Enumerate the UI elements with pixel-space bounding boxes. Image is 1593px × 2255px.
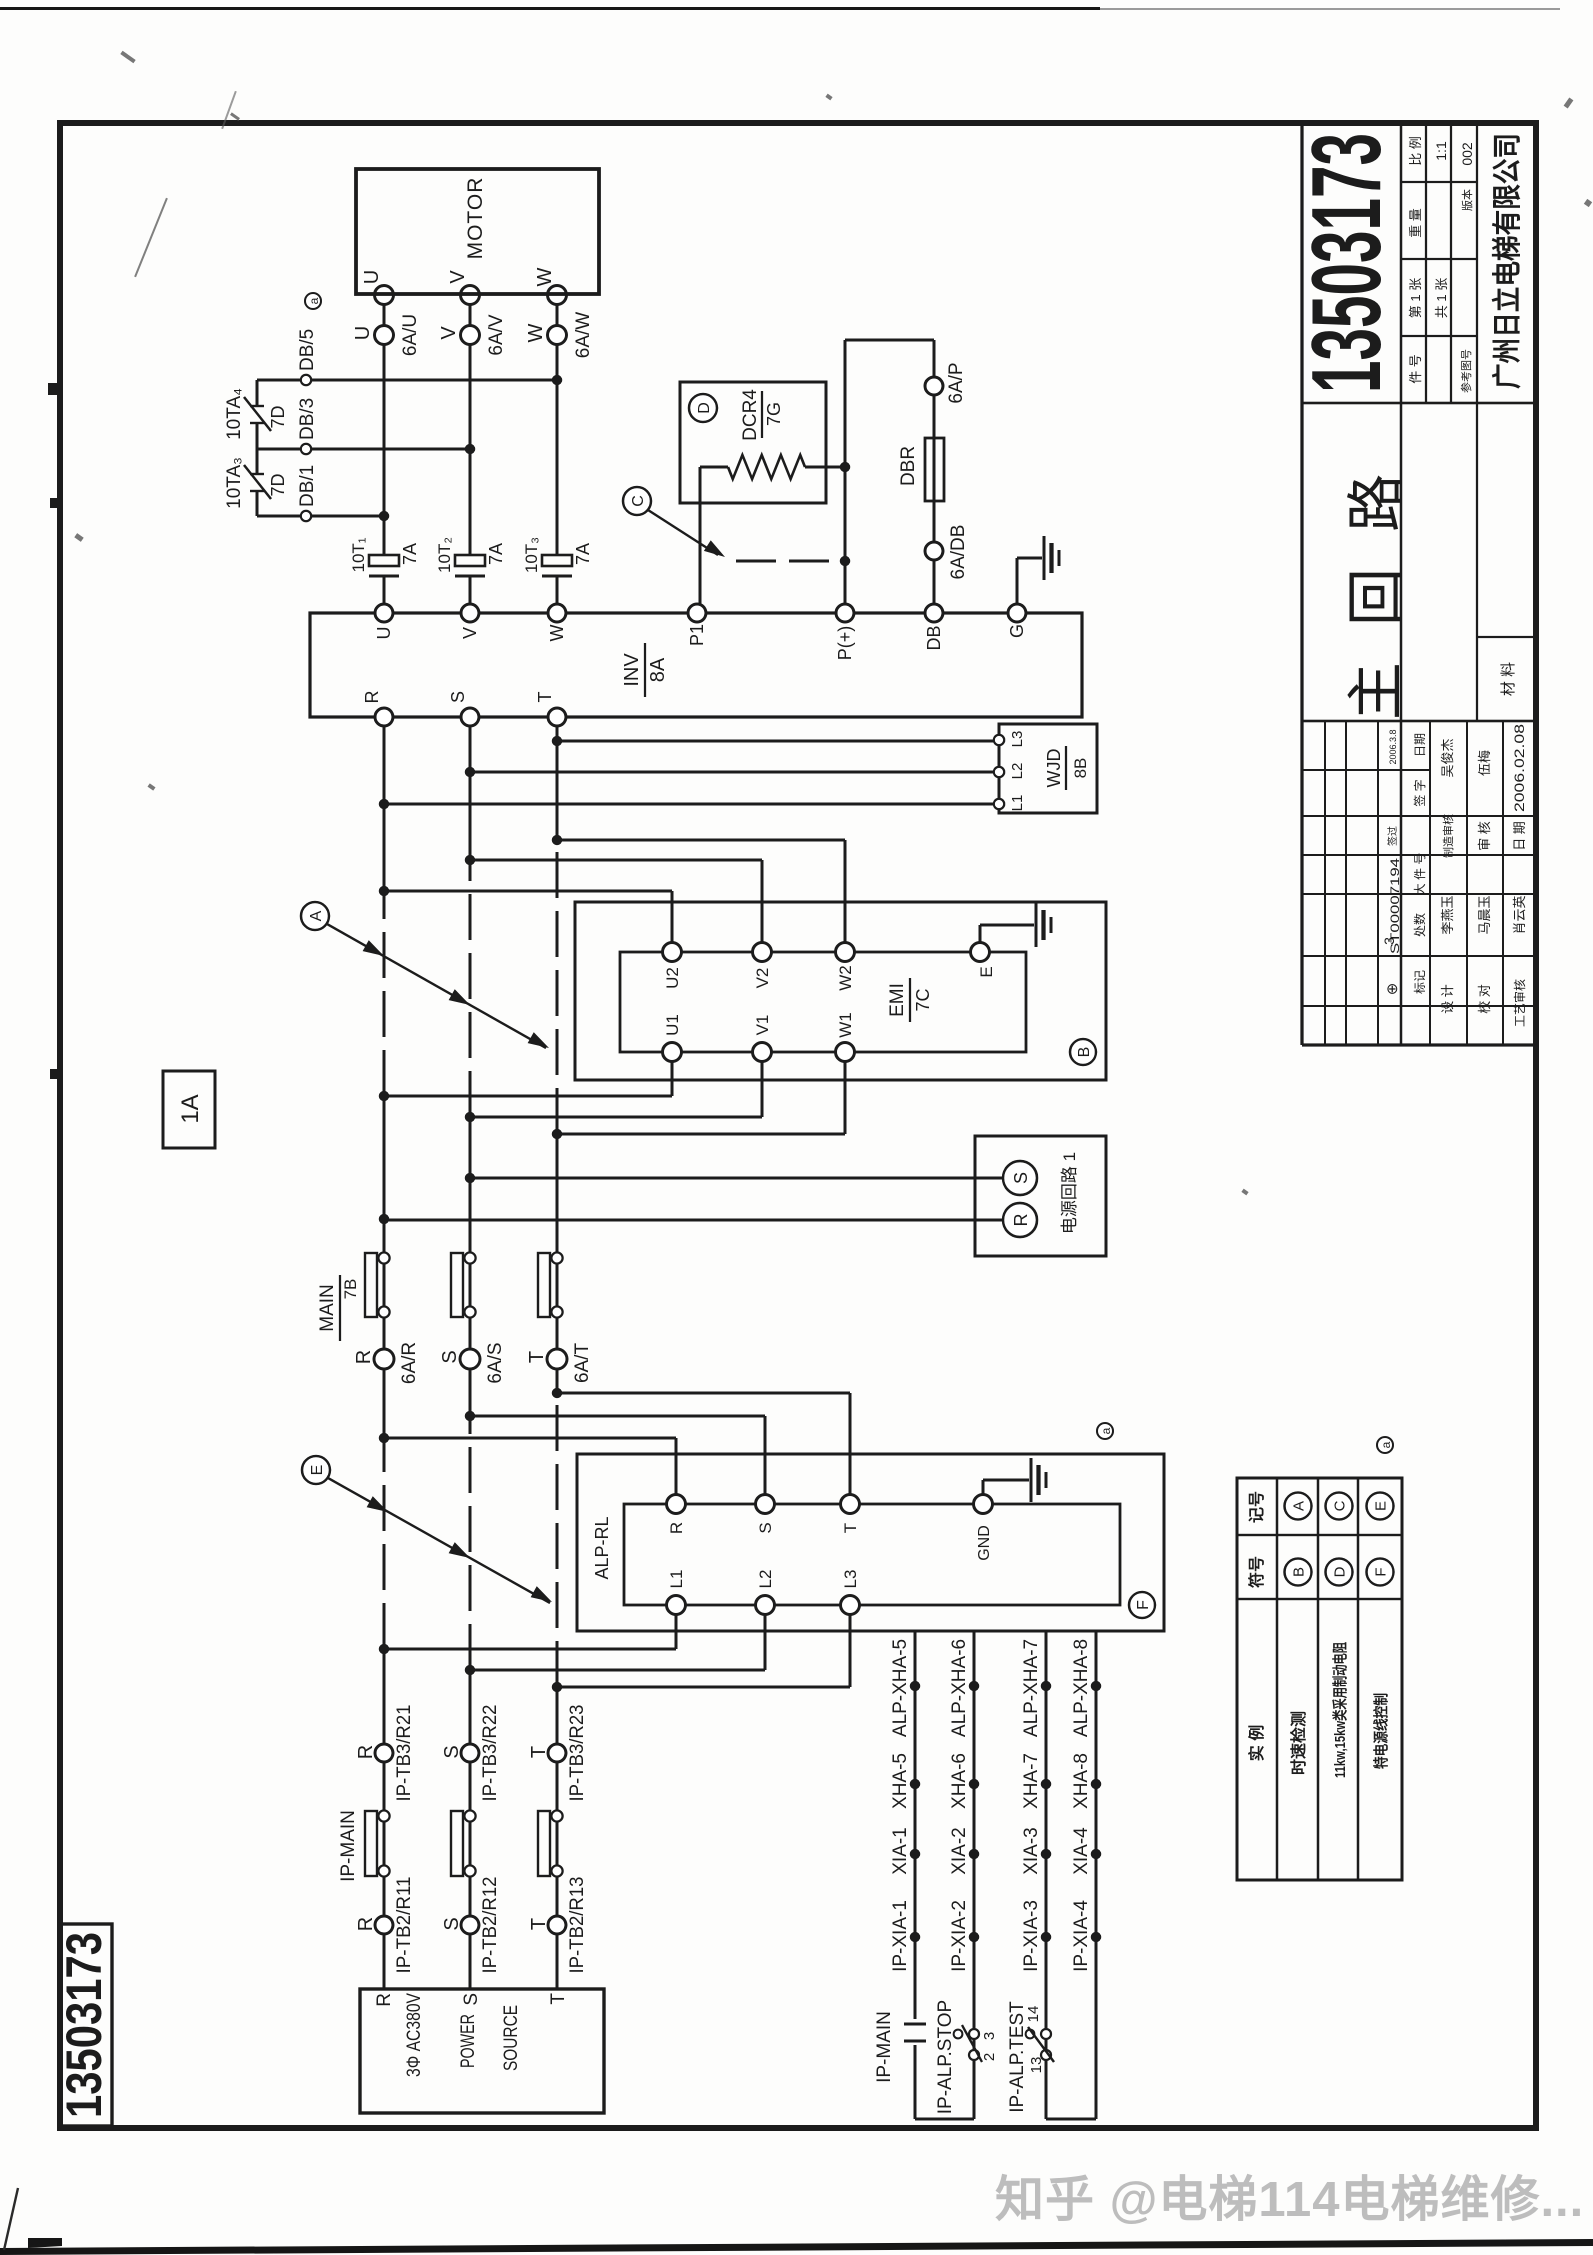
node WJD tap S <box>465 767 475 777</box>
svg-text:A: A <box>308 910 325 921</box>
pin L2 <box>994 767 1004 777</box>
pin S <box>1003 1161 1037 1195</box>
contactor MAIN/7B contact R <box>365 1253 377 1317</box>
pin L2 of ALP-RL <box>756 1596 775 1615</box>
contactor IP-MAIN contact T <box>538 1811 550 1876</box>
svg-text:R: R <box>353 1350 375 1364</box>
ground (ALP-RL GND) <box>1030 1458 1033 1502</box>
node IP-XIA-2 <box>969 1932 979 1942</box>
switch IP-ALP.STOP <box>969 2050 979 2060</box>
svg-text:POWER: POWER <box>458 2014 479 2068</box>
wire DB rail <box>933 340 936 604</box>
svg-text:T: T <box>548 1993 569 2005</box>
pin R <box>1003 1203 1037 1237</box>
wire control line XIA-4 <box>1095 1631 1098 2119</box>
node ALP-RL L-return junction S <box>465 1665 475 1675</box>
svg-text:S: S <box>441 1745 463 1758</box>
node WJD tap R <box>379 799 389 809</box>
svg-text:T: T <box>535 692 555 703</box>
svg-text:ALP-XHA-7: ALP-XHA-7 <box>1021 1639 1042 1737</box>
unit 电源回路1 box <box>975 1136 1106 1256</box>
wire E to earth <box>979 925 982 943</box>
svg-text:特电源线控制: 特电源线控制 <box>1372 1693 1390 1769</box>
pin R of ALP-RL <box>667 1495 686 1514</box>
wire S dashed bypass (EMI) <box>469 860 472 1117</box>
terminal 6A/V <box>461 326 480 345</box>
svg-text:8B: 8B <box>1071 758 1090 779</box>
terminal 6A/T <box>547 1349 567 1369</box>
terminal IP-TB3/R22 <box>461 1744 479 1762</box>
svg-text:6A/W: 6A/W <box>573 312 594 359</box>
wire S tap to 电源回路 <box>470 1177 1003 1180</box>
svg-text:W: W <box>547 625 567 642</box>
contactor MAIN/7B contact T <box>538 1253 550 1317</box>
svg-text:L1: L1 <box>667 1570 686 1589</box>
svg-text:ALP-XHA-8: ALP-XHA-8 <box>1071 1639 1092 1737</box>
svg-text:6A/DB: 6A/DB <box>948 525 969 580</box>
contactor IP-MAIN contact R <box>365 1811 377 1876</box>
svg-text:共 1 张: 共 1 张 <box>1434 278 1449 318</box>
svg-text:XIA-4: XIA-4 <box>1071 1827 1092 1875</box>
watermark 知乎 <box>995 2160 1593 2220</box>
node ALP-XHA-6 <box>969 1681 979 1691</box>
pin W of INV <box>548 604 566 622</box>
node XHA-5 <box>910 1779 920 1789</box>
pin U2 <box>663 943 682 962</box>
wire GND to earth <box>982 1480 985 1495</box>
svg-text:10T₁: 10T₁ <box>349 537 368 572</box>
ground (EMI E) <box>1035 903 1038 947</box>
svg-text:IP-TB2/R13: IP-TB2/R13 <box>567 1877 588 1974</box>
svg-text:材 料: 材 料 <box>1500 662 1517 696</box>
pin V of INV <box>461 604 479 622</box>
wire T phase: power source to ALP junction <box>556 1687 559 1989</box>
wire R solid to EMI junction <box>383 1096 386 1438</box>
node XIA-2 <box>969 1849 979 1859</box>
label circle D <box>689 394 717 422</box>
svg-text:D: D <box>1331 1566 1348 1577</box>
svg-text:IP-TB3/R23: IP-TB3/R23 <box>567 1705 588 1802</box>
svg-text:C: C <box>630 495 647 507</box>
svg-text:⊕: ⊕ <box>1384 983 1401 996</box>
terminal IP-TB3/R21 <box>375 1744 393 1762</box>
svg-text:IP-XIA-4: IP-XIA-4 <box>1071 1900 1092 1972</box>
node ALP-RL L-return junction T <box>552 1682 562 1692</box>
wire U2 to R <box>671 891 674 943</box>
svg-text:R: R <box>362 691 382 704</box>
wire S phase: power source to ALP junction <box>469 1670 472 1989</box>
svg-text:S: S <box>441 1917 463 1930</box>
svg-text:ALP-XHA-6: ALP-XHA-6 <box>949 1639 970 1737</box>
svg-text:DB/1: DB/1 <box>297 465 318 507</box>
svg-text:L2: L2 <box>1009 763 1026 780</box>
node EMI input junction S <box>465 855 475 865</box>
svg-text:2006.3.8: 2006.3.8 <box>1388 729 1398 764</box>
svg-text:符号: 符号 <box>1247 1556 1266 1588</box>
terminal IP-TB3/R23 <box>548 1744 566 1762</box>
node 电源回路 S tap <box>465 1173 475 1183</box>
svg-text:R: R <box>355 1917 377 1931</box>
pin V2 <box>753 943 772 962</box>
pin E <box>971 943 990 962</box>
label circle A with leader <box>301 902 329 930</box>
svg-text:广州日立电梯有限公司: 广州日立电梯有限公司 <box>1490 133 1524 389</box>
label circle C with leader <box>623 487 651 515</box>
svg-text:U: U <box>352 326 374 340</box>
contactor MAIN/7B contact S <box>451 1253 463 1317</box>
legend circle B <box>1285 1559 1312 1586</box>
node IP-XIA-1 <box>910 1932 920 1942</box>
svg-text:B: B <box>1076 1047 1093 1058</box>
svg-text:3Φ AC380V: 3Φ AC380V <box>404 1993 425 2077</box>
wire T to WJD L3 <box>557 740 994 743</box>
svg-text:W1: W1 <box>836 1012 855 1038</box>
node EMI input junction R <box>379 886 389 896</box>
node ALP-XHA-5 <box>910 1681 920 1691</box>
svg-text:L1: L1 <box>1009 795 1026 812</box>
wire R to WJD L1 <box>384 803 994 806</box>
terminal V at motor <box>461 286 480 305</box>
svg-text:XIA-1: XIA-1 <box>890 1827 911 1875</box>
svg-text:IP-XIA-3: IP-XIA-3 <box>1021 1900 1042 1972</box>
pin T of ALP-RL <box>841 1495 860 1514</box>
wire control line XIA-1 <box>914 2045 917 2119</box>
legend circle D <box>1326 1559 1353 1586</box>
svg-text:实 例: 实 例 <box>1247 1725 1266 1761</box>
svg-text:设 计: 设 计 <box>1440 984 1455 1014</box>
wire R solid to INV <box>383 717 386 891</box>
svg-text:V: V <box>438 326 460 340</box>
ground (G terminal) <box>1043 536 1046 580</box>
svg-text:李燕玉: 李燕玉 <box>1440 895 1455 934</box>
wire V2 to S <box>761 860 764 943</box>
wire P(+) rail <box>844 340 847 604</box>
svg-text:a: a <box>1099 1427 1113 1434</box>
pin V1 <box>753 1043 772 1062</box>
svg-text:E: E <box>1372 1501 1389 1511</box>
svg-text:a: a <box>307 297 321 304</box>
node EMI input junction T <box>552 835 562 845</box>
svg-text:E: E <box>309 1465 326 1476</box>
svg-text:6A/T: 6A/T <box>572 1343 593 1384</box>
svg-text:7B: 7B <box>341 1279 360 1300</box>
pin P1 of INV <box>688 604 706 622</box>
label circle F <box>1129 1592 1155 1618</box>
wire DB/5 tap (to W) <box>257 379 557 382</box>
svg-text:7G: 7G <box>764 402 784 426</box>
svg-text:W: W <box>534 267 556 286</box>
svg-text:SOURCE: SOURCE <box>501 2005 522 2071</box>
node EMI V1 tap <box>465 1112 475 1122</box>
terminal U at motor <box>375 286 394 305</box>
wire U phase INV to motor <box>383 576 386 604</box>
svg-text:工艺审核: 工艺审核 <box>1512 979 1527 1027</box>
svg-text:IP-MAIN: IP-MAIN <box>874 2011 895 2083</box>
svg-text:IP-TB3/R21: IP-TB3/R21 <box>394 1705 415 1802</box>
pin L3 of ALP-RL <box>841 1596 860 1615</box>
wire DCR4 top to P1 <box>700 466 728 469</box>
node IP-XIA-3 <box>1041 1932 1051 1942</box>
svg-text:MAIN: MAIN <box>317 1284 338 1332</box>
node dashed option junction <box>840 556 850 566</box>
svg-text:IP-TB3/R22: IP-TB3/R22 <box>480 1705 501 1802</box>
wire W phase INV to motor <box>556 576 559 604</box>
svg-text:R: R <box>374 1993 395 2007</box>
legend table <box>1237 1478 1402 1880</box>
svg-text:EMI: EMI <box>887 983 908 1017</box>
wire W1 to T <box>844 1061 847 1134</box>
svg-text:V1: V1 <box>753 1015 772 1036</box>
svg-text:3: 3 <box>981 2032 998 2040</box>
svg-text:比 例: 比 例 <box>1408 136 1423 166</box>
svg-text:重 量: 重 量 <box>1408 208 1423 238</box>
contact IP-MAIN aux <box>904 2040 926 2043</box>
svg-text:时速检测: 时速检测 <box>1289 1711 1308 1775</box>
scan scratches top-left <box>134 198 168 278</box>
svg-text:DB/3: DB/3 <box>297 398 318 440</box>
pin L1 of ALP-RL <box>667 1596 686 1615</box>
scan nub marks on frame edge <box>48 383 60 395</box>
svg-text:日 期: 日 期 <box>1512 821 1527 851</box>
switch 10TA4 <box>250 422 264 424</box>
svg-text:IP-ALP.STOP: IP-ALP.STOP <box>935 2000 956 2114</box>
pin L3 <box>994 735 1004 745</box>
svg-text:DBR: DBR <box>898 446 919 486</box>
unit ALP-RL outer box <box>577 1454 1164 1631</box>
switch IP-ALP.TEST <box>1041 2050 1051 2060</box>
legend circle A <box>1285 1493 1312 1520</box>
node ALP-RL input junction S <box>465 1411 475 1421</box>
capacitor 10T₃ (7A) <box>542 575 572 578</box>
terminal DB/5 <box>301 375 311 385</box>
node EMI W1 tap <box>552 1129 562 1139</box>
pin U1 <box>663 1043 682 1062</box>
terminal DB/1 <box>301 511 311 521</box>
wire ALP L1 return <box>675 1614 678 1649</box>
svg-text:D: D <box>696 402 713 414</box>
wire V phase INV to motor <box>469 576 472 604</box>
svg-text:伍梅: 伍梅 <box>1477 750 1492 776</box>
pin T of INV <box>548 708 566 726</box>
terminal 6A/U <box>375 326 394 345</box>
svg-text:审 核: 审 核 <box>1477 821 1492 851</box>
wire G to earth <box>1016 558 1019 604</box>
svg-text:DB/5: DB/5 <box>297 329 318 371</box>
node XHA-8 <box>1091 1779 1101 1789</box>
wire T dashed bypass (ALP-RL) <box>556 1393 559 1687</box>
wire S solid to INV <box>469 717 472 860</box>
svg-text:DCR4: DCR4 <box>740 389 761 441</box>
terminal 6A/R <box>374 1349 394 1369</box>
capacitor 10T₁ (7A) <box>369 575 399 578</box>
svg-text:U1: U1 <box>663 1014 682 1036</box>
node a (ALP-RL) <box>1097 1423 1113 1439</box>
svg-text:IP-XIA-1: IP-XIA-1 <box>890 1900 911 1972</box>
motor box <box>356 169 599 294</box>
svg-text:S: S <box>439 1350 461 1363</box>
filter EMI/7C outer box <box>575 902 1106 1080</box>
node ALP-RL input junction T <box>552 1388 562 1398</box>
legend circle C <box>1326 1493 1353 1520</box>
wire R dashed bypass (ALP-RL) <box>383 1438 386 1649</box>
wire control line XIA-2 <box>973 1631 976 2119</box>
svg-text:处数: 处数 <box>1412 913 1427 937</box>
wire T dashed bypass (EMI) <box>556 840 559 1134</box>
svg-text:WJD: WJD <box>1044 749 1064 788</box>
node a (near motor) <box>305 293 321 309</box>
node XIA-1 <box>910 1849 920 1859</box>
pin U of INV <box>375 604 393 622</box>
unit ALP-RL inner box <box>624 1504 1120 1605</box>
terminal 6A/P <box>925 377 943 395</box>
node XIA-3 <box>1041 1849 1051 1859</box>
svg-text:第 1 张: 第 1 张 <box>1408 278 1423 318</box>
svg-text:R: R <box>355 1745 377 1759</box>
power source box <box>360 1989 604 2113</box>
reference box 1A <box>163 1071 215 1148</box>
svg-text:参考图号: 参考图号 <box>1459 349 1473 393</box>
svg-text:吴俊杰: 吴俊杰 <box>1440 738 1455 777</box>
node 电源回路 R tap <box>379 1214 389 1224</box>
svg-text:U: U <box>374 627 394 640</box>
svg-text:XIA-2: XIA-2 <box>949 1827 970 1875</box>
svg-text:大 件 号: 大 件 号 <box>1413 853 1427 896</box>
svg-text:XHA-5: XHA-5 <box>890 1753 911 1809</box>
svg-text:GND: GND <box>976 1525 993 1561</box>
node DCR4/P(+) junction <box>840 462 850 472</box>
svg-text:签过: 签过 <box>1386 826 1399 846</box>
svg-text:P(+): P(+) <box>835 626 855 661</box>
wire S dashed bypass (ALP-RL) <box>469 1416 472 1670</box>
svg-text:10T₂: 10T₂ <box>435 537 454 573</box>
wire S solid to EMI junction <box>469 1117 472 1416</box>
terminal 6A/DB <box>925 542 943 560</box>
terminal DB/3 <box>301 444 311 454</box>
svg-text:XHA-6: XHA-6 <box>949 1753 970 1809</box>
pin R of INV <box>375 708 393 726</box>
pin DB of INV <box>925 604 943 622</box>
svg-text:S: S <box>1011 1172 1031 1184</box>
resistor DCR4 zigzag <box>728 455 805 479</box>
wire W2 to T <box>844 840 847 943</box>
node XHA-6 <box>969 1779 979 1789</box>
svg-text:13503173: 13503173 <box>1291 133 1401 393</box>
wire R phase: power source to ALP junction <box>383 1649 386 1989</box>
wire control line XIA-3 <box>1045 1631 1048 2119</box>
wire dashed option C <box>736 560 845 563</box>
svg-text:IP-ALP.TEST: IP-ALP.TEST <box>1007 2001 1028 2113</box>
svg-text:签 字: 签 字 <box>1412 779 1427 806</box>
wire S to WJD L2 <box>470 771 994 774</box>
svg-text:记号: 记号 <box>1248 1491 1266 1523</box>
svg-text:E: E <box>977 966 996 977</box>
node IP-XIA-4 <box>1091 1932 1101 1942</box>
pin L1 <box>994 799 1004 809</box>
signature table <box>1324 721 1326 1045</box>
reactor DCR4/7G box <box>680 382 826 503</box>
wire ALP L2 return <box>764 1614 767 1670</box>
svg-text:8A: 8A <box>647 657 669 682</box>
wire DB/3 tap (to V) <box>257 448 470 451</box>
capacitor 10T₂ (7A) <box>455 575 485 578</box>
wire ALP S input <box>470 1415 765 1418</box>
wire ALP L3 return <box>849 1614 852 1687</box>
pin W1 <box>836 1043 855 1062</box>
wire 10TA bracket <box>256 491 259 516</box>
legend circle E <box>1367 1493 1394 1520</box>
wire ALP R input <box>384 1437 676 1440</box>
node ALP-XHA-8 <box>1091 1681 1101 1691</box>
svg-text:XIA-3: XIA-3 <box>1021 1827 1042 1875</box>
svg-text:XHA-7: XHA-7 <box>1021 1753 1042 1809</box>
wire loop 3-4 <box>1046 2118 1096 2121</box>
svg-text:L3: L3 <box>841 1570 860 1589</box>
svg-text:A: A <box>1290 1501 1307 1511</box>
terminal W at motor <box>548 286 567 305</box>
svg-text:13: 13 <box>1028 2057 1045 2074</box>
svg-text:13503173: 13503173 <box>56 1932 112 2118</box>
svg-text:XHA-8: XHA-8 <box>1071 1753 1092 1809</box>
wire DCR4 bottom to P(+) <box>805 466 845 469</box>
svg-text:标记: 标记 <box>1413 970 1427 994</box>
pin GND <box>974 1495 993 1514</box>
svg-text:6A/P: 6A/P <box>946 362 967 403</box>
svg-text:a: a <box>1379 1441 1393 1448</box>
node DB/3 junction on V <box>465 444 475 454</box>
switch 10TA3 <box>250 490 264 492</box>
wire U1 to R <box>671 1061 674 1096</box>
svg-text:G: G <box>1007 624 1027 638</box>
svg-text:MOTOR: MOTOR <box>464 177 487 260</box>
svg-text:F: F <box>1372 1567 1389 1576</box>
svg-text:7A: 7A <box>573 543 593 565</box>
node ALP-RL input junction R <box>379 1433 389 1443</box>
svg-text:制造审核: 制造审核 <box>1441 814 1455 858</box>
node XHA-7 <box>1041 1779 1051 1789</box>
svg-text:002: 002 <box>1459 142 1475 166</box>
svg-text:电源回路 1: 电源回路 1 <box>1060 1152 1079 1234</box>
inverter INV/8A box <box>310 613 1082 717</box>
node XIA-4 <box>1091 1849 1101 1859</box>
wire P(+) to DB loop <box>845 339 934 342</box>
svg-text:V: V <box>447 270 469 284</box>
svg-text:T: T <box>528 1918 550 1930</box>
pin S of INV <box>461 708 479 726</box>
svg-text:10T₃: 10T₃ <box>522 537 541 573</box>
svg-text:T: T <box>528 1746 550 1758</box>
contactor IP-MAIN contact S <box>451 1811 463 1876</box>
svg-text:7A: 7A <box>400 543 420 565</box>
svg-text:U2: U2 <box>663 967 682 989</box>
svg-text:1A: 1A <box>177 1094 204 1123</box>
svg-text:10TA₃: 10TA₃ <box>224 457 245 509</box>
svg-text:IP-XIA-2: IP-XIA-2 <box>949 1900 970 1972</box>
svg-text:7D: 7D <box>268 473 288 496</box>
svg-text:10TA₄: 10TA₄ <box>224 388 245 440</box>
scan artifact: bottom edge strip <box>0 2180 1593 2255</box>
svg-text:6A/S: 6A/S <box>485 1342 506 1383</box>
svg-text:W2: W2 <box>836 965 855 991</box>
label circle B <box>1070 1039 1096 1065</box>
svg-text:C: C <box>1331 1500 1348 1511</box>
svg-text:1:1: 1:1 <box>1433 141 1449 161</box>
drawing number stamp box (top-left) <box>60 1924 112 2126</box>
node DB/5 junction on W <box>552 375 562 385</box>
terminal IP-TB2/R12 <box>461 1916 479 1934</box>
svg-text:P1: P1 <box>687 624 707 646</box>
svg-text:B: B <box>1290 1567 1307 1577</box>
label circle E with leader <box>302 1456 330 1484</box>
